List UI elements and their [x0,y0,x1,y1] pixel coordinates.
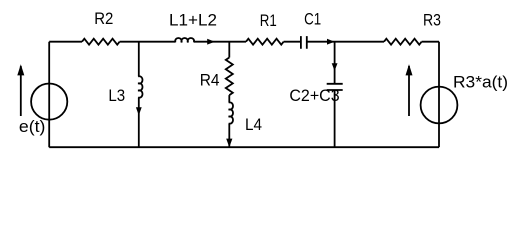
resistor R1 [246,39,284,45]
arrow up beside e(t) [20,66,22,116]
wire right vertical [438,42,440,148]
arrow right on top rail after L1 [207,39,215,45]
wire L1 to R1 with current arrow [194,41,246,43]
inductor L4 [229,102,233,123]
wire top rail R2 to L1 [120,41,176,43]
wire C2+C3 branch upper with arrow [334,42,336,84]
svg-text:e(t): e(t) [19,117,46,136]
arrow down at bottom of L4 branch [226,139,232,148]
wire R4 branch upper [228,42,230,58]
wire top rail right segment [422,41,439,43]
wire C2+C3 branch lower [334,90,336,147]
svg-text:C1: C1 [304,10,321,29]
wire top rail left segment [49,41,82,43]
wire L3 branch lower with arrow [138,98,140,148]
arrow up beside R3*a(t) [408,66,410,116]
resistor R4 [226,58,233,96]
wire L3 branch upper [138,42,140,77]
svg-text:L4: L4 [245,115,262,134]
svg-text:L3: L3 [108,86,125,105]
svg-text:R2: R2 [94,9,113,28]
wire R4 to L4 [228,95,230,102]
svg-text:R3: R3 [423,11,441,30]
capacitor C2+C3 [327,84,343,90]
inductor L1+L2 [175,38,194,42]
arrow down on C2+C3 branch [332,63,338,71]
wire bottom rail [49,146,439,148]
wire C1 to R3 with current arrow [307,41,384,43]
svg-text:L1+L2: L1+L2 [169,10,217,29]
wire R1 to C1 [284,41,301,43]
svg-text:R3*a(t): R3*a(t) [453,72,508,91]
svg-text:R1: R1 [260,11,277,30]
svg-text:C2+C3: C2+C3 [289,86,339,105]
wire left vertical [48,42,50,148]
svg-text:R4: R4 [200,71,220,90]
arrow down on L3 branch [136,107,142,115]
source e(t) circle U1 [31,84,67,120]
arrow right on top rail before node [327,39,335,45]
resistor R3 [384,39,422,45]
wire L4 branch lower with arrow [228,124,230,147]
inductor L3 [138,76,142,97]
capacitor C1 [301,36,307,49]
resistor R2 [82,39,120,45]
source R3*a(t) circle U2 [421,87,458,124]
